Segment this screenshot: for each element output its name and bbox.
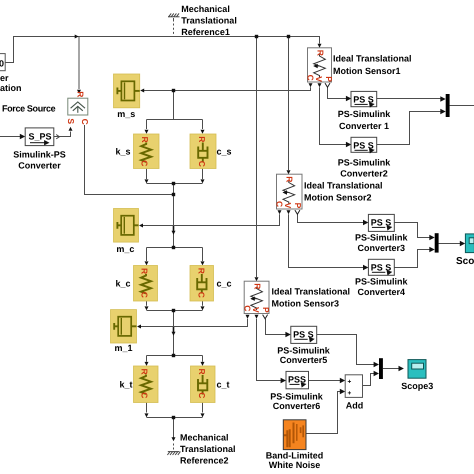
- svg-text:Ideal Translational: Ideal Translational: [333, 54, 412, 64]
- svg-text:Mechanical: Mechanical: [181, 4, 230, 14]
- svg-text:C: C: [275, 201, 285, 207]
- svg-text:Reference1: Reference1: [181, 27, 230, 37]
- svg-text:PS-Simulink: PS-Simulink: [270, 392, 324, 402]
- svg-text:C: C: [140, 292, 150, 298]
- svg-text:P: P: [293, 203, 303, 209]
- svg-text:PS-Simulink: PS-Simulink: [338, 109, 392, 119]
- svg-text:m_s: m_s: [117, 109, 135, 119]
- svg-text:k_c: k_c: [116, 279, 131, 289]
- svg-text:+: +: [348, 378, 352, 385]
- svg-text:C: C: [197, 392, 207, 398]
- svg-text:Mechanical: Mechanical: [180, 433, 229, 443]
- svg-text:c_s: c_s: [217, 147, 232, 157]
- svg-text:c_c: c_c: [217, 279, 232, 289]
- svg-text:C: C: [80, 119, 90, 125]
- svg-text:ation: ation: [0, 83, 22, 93]
- svg-text:R: R: [197, 369, 207, 375]
- svg-text:Motion Sensor1: Motion Sensor1: [333, 66, 401, 76]
- svg-text:+: +: [348, 390, 352, 397]
- svg-text:C: C: [140, 160, 150, 166]
- svg-text:Converter6: Converter6: [273, 401, 321, 411]
- svg-text:Converter2: Converter2: [340, 169, 388, 179]
- svg-text:Band-Limited: Band-Limited: [266, 451, 324, 461]
- svg-text:Converter5: Converter5: [280, 355, 328, 365]
- svg-text:Scope2: Scope2: [456, 256, 474, 267]
- svg-text:Converter: Converter: [18, 161, 61, 171]
- svg-text:R: R: [76, 91, 86, 97]
- svg-text:m_1: m_1: [115, 343, 133, 353]
- svg-text:Ideal Translational: Ideal Translational: [272, 287, 351, 297]
- svg-text:PS-Simulink: PS-Simulink: [355, 233, 409, 243]
- svg-text:R: R: [140, 268, 150, 274]
- svg-text:White Noise: White Noise: [269, 460, 321, 470]
- svg-text:R: R: [316, 50, 326, 56]
- svg-text:k_t: k_t: [120, 380, 133, 390]
- svg-text:Reference2: Reference2: [180, 456, 229, 466]
- svg-text:Translational: Translational: [181, 16, 237, 26]
- svg-text:Force Source: Force Source: [2, 104, 56, 114]
- svg-text:C: C: [306, 75, 316, 81]
- svg-text:c_t: c_t: [217, 380, 230, 390]
- svg-text:PS-Simulink: PS-Simulink: [355, 277, 409, 287]
- svg-text:V: V: [251, 307, 261, 313]
- svg-text:S: S: [66, 118, 76, 124]
- svg-text:Motion Sensor2: Motion Sensor2: [304, 193, 372, 203]
- svg-text:Add: Add: [346, 401, 364, 411]
- svg-text:PSS: PSS: [288, 374, 306, 384]
- svg-text:R: R: [197, 268, 207, 274]
- svg-text:Ideal Translational: Ideal Translational: [304, 181, 383, 191]
- svg-text:k_s: k_s: [116, 147, 131, 157]
- svg-text:0: 0: [0, 59, 4, 69]
- svg-text:m_c: m_c: [116, 244, 134, 254]
- svg-text:P: P: [261, 307, 271, 313]
- svg-text:C: C: [197, 161, 207, 167]
- svg-text:PS-Simulink: PS-Simulink: [338, 158, 392, 168]
- svg-text:C: C: [242, 305, 252, 311]
- svg-text:R: R: [252, 283, 262, 289]
- svg-text:Translational: Translational: [180, 444, 236, 454]
- svg-text:Motion Sensor3: Motion Sensor3: [272, 299, 340, 309]
- svg-text:C: C: [140, 392, 150, 398]
- svg-text:V: V: [283, 203, 293, 209]
- svg-text:R: R: [285, 176, 295, 182]
- svg-text:R: R: [140, 369, 150, 375]
- svg-text:R: R: [197, 136, 207, 142]
- svg-text:S_PS: S_PS: [29, 132, 52, 142]
- svg-text:Converter4: Converter4: [358, 287, 406, 297]
- svg-text:Scope3: Scope3: [401, 381, 433, 391]
- svg-text:R: R: [140, 137, 150, 143]
- svg-text:Simulink-PS: Simulink-PS: [13, 150, 66, 160]
- svg-text:er: er: [0, 73, 9, 83]
- svg-text:Converter3: Converter3: [358, 243, 406, 253]
- svg-text:V: V: [314, 76, 324, 82]
- svg-text:C: C: [197, 292, 207, 298]
- svg-text:Converter 1: Converter 1: [339, 121, 389, 131]
- svg-text:P: P: [324, 76, 334, 82]
